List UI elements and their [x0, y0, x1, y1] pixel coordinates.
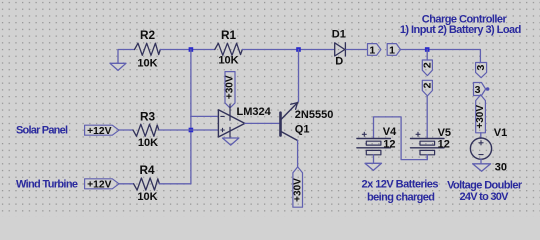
net flag +12V (solar): [85, 125, 119, 135]
wire flag 2b to battery V5: [426, 96, 428, 139]
wire R2 to R1: [160, 49, 214, 51]
svg-text:+12V: +12V: [87, 180, 111, 191]
net flag +12V (wind): [85, 179, 119, 189]
svg-text:being charged: being charged: [367, 191, 435, 203]
wire bus to op-amp inverting input: [191, 115, 219, 117]
svg-text:R2: R2: [140, 28, 156, 42]
svg-text:12: 12: [438, 138, 450, 150]
resistor R4: [134, 178, 160, 190]
svg-text:+30V: +30V: [475, 105, 486, 129]
node junction C: [425, 47, 430, 52]
net flag +30V (above V1): [476, 95, 486, 133]
svg-text:3: 3: [475, 65, 487, 71]
node junction A (bus top): [189, 47, 194, 52]
svg-text:Wind Turbine: Wind Turbine: [16, 178, 78, 190]
svg-text:2: 2: [421, 62, 433, 68]
svg-text:R1: R1: [221, 28, 237, 42]
svg-text:+12V: +12V: [87, 126, 111, 137]
svg-text:Solar Panel: Solar Panel: [16, 124, 68, 136]
wire: ground to R2: [118, 50, 135, 64]
net flag 2 (a): [422, 60, 432, 76]
wire Q1 collector down to +30V flag: [297, 141, 299, 167]
net flag 3 (b) with stub dot: [474, 83, 486, 96]
svg-text:2: 2: [421, 82, 433, 88]
svg-text:2x 12V Batteries: 2x 12V Batteries: [362, 179, 439, 191]
wire V4 to ground: [373, 155, 375, 164]
wire series link V4 top to V5 bottom: [374, 117, 428, 160]
wire flag 1b to right corner: [401, 50, 481, 63]
net flag 2 (b): [422, 80, 432, 96]
ground (under V1): [473, 164, 491, 172]
wire bus vertical: [190, 50, 192, 184]
wire +12V to R3: [119, 129, 133, 131]
svg-text:Voltage Doubler: Voltage Doubler: [447, 179, 523, 191]
wire R4 to bus: [159, 183, 191, 185]
transistor Q1 2N5550: [281, 102, 298, 140]
svg-text:Q1: Q1: [295, 124, 310, 136]
svg-text:2N5550: 2N5550: [295, 109, 334, 121]
svg-text:V1: V1: [494, 127, 507, 139]
net flag +30V (below Q1): [293, 167, 303, 207]
svg-text:1: 1: [369, 44, 375, 56]
svg-text:R3: R3: [140, 109, 156, 123]
net flag 1 (a): [368, 44, 381, 56]
svg-text:V4: V4: [383, 126, 397, 138]
svg-text:R4: R4: [139, 163, 155, 177]
svg-text:LM324: LM324: [237, 106, 272, 118]
node junction D (bus / R3 row): [189, 128, 194, 133]
wire +30V flag to V1: [480, 133, 482, 138]
svg-text:3: 3: [475, 84, 481, 96]
svg-text:1) Input 2) Battery 3) Load: 1) Input 2) Battery 3) Load: [400, 24, 521, 36]
ground (under op-amp): [223, 138, 239, 145]
net flag +30V (above op-amp): [225, 72, 235, 108]
svg-text:12: 12: [383, 138, 395, 150]
ground (under V4): [365, 163, 382, 170]
diode D1: [335, 43, 346, 56]
wire D1 to flag 1a: [346, 49, 367, 51]
svg-text:1: 1: [389, 44, 395, 56]
svg-text:24V to 30V: 24V to 30V: [460, 191, 510, 203]
wire R3 to op-amp non-inverting input: [159, 129, 219, 131]
net flag 1 (b): [387, 44, 400, 56]
resistor R3: [133, 124, 159, 136]
svg-text:10K: 10K: [138, 137, 158, 149]
wire junction C down to flag 2a: [426, 50, 428, 61]
svg-text:D: D: [335, 56, 343, 68]
wire Q1 emitter up to node B: [298, 50, 300, 102]
net flag 3 (a): [476, 63, 487, 78]
wire R1 to D1: [242, 49, 334, 51]
svg-text:+30V: +30V: [292, 178, 303, 202]
battery V5: [411, 132, 445, 159]
svg-text:10K: 10K: [137, 57, 157, 69]
wire +12V to R4: [119, 183, 134, 185]
op-amp U1 LM324: [218, 104, 244, 138]
svg-text:+30V: +30V: [225, 75, 236, 99]
svg-text:10K: 10K: [218, 54, 238, 66]
wire op-amp output to Q1 base: [245, 122, 279, 124]
svg-text:D1: D1: [332, 29, 346, 41]
battery V4: [357, 132, 391, 154]
wire V1 to ground: [480, 159, 482, 164]
svg-text:30: 30: [495, 161, 507, 173]
resistor R1: [215, 43, 243, 55]
ground (top left): [110, 63, 126, 70]
node junction B (Q1 emitter column): [296, 47, 301, 52]
resistor R2: [135, 43, 161, 55]
svg-text:10K: 10K: [137, 191, 157, 203]
voltage source V1: [470, 138, 491, 159]
